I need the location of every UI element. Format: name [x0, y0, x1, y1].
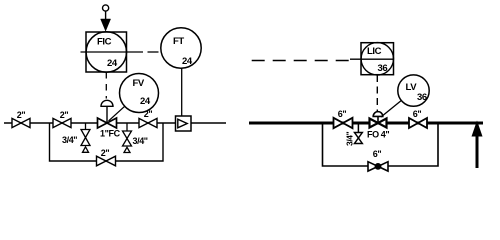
- wire: LV actuator stem: [377, 116, 379, 123]
- valve 2in V3: [139, 118, 157, 127]
- wire: actuator stem: [106, 106, 108, 123]
- valve 2in V2: [53, 118, 71, 127]
- svg-text:2": 2": [101, 148, 110, 158]
- wire: FIC mid line: [81, 51, 144, 53]
- wire: right main pipe (bold): [249, 122, 483, 125]
- valve 6in V1r: [334, 118, 353, 128]
- svg-text:LIC: LIC: [367, 46, 382, 57]
- svg-text:3/4": 3/4": [133, 136, 148, 146]
- drain valve D2 3/4in: [123, 123, 132, 153]
- svg-text:FO 4": FO 4": [367, 130, 389, 140]
- wire: LV circle to valve diagonal: [381, 101, 401, 118]
- valve 2in V1: [12, 118, 30, 127]
- wire: FT to FE vertical: [181, 68, 183, 116]
- svg-text:2": 2": [17, 110, 26, 120]
- instrument FIC-24 square: [86, 32, 127, 72]
- actuator diaphragm of LV: [373, 112, 383, 117]
- wire: dashed signal line to LIC: [252, 60, 349, 62]
- svg-text:FV: FV: [133, 78, 145, 89]
- svg-text:36: 36: [378, 63, 388, 74]
- ball valve 6in on bypass: [368, 162, 388, 171]
- control valve LV body (bold): [370, 119, 387, 128]
- control valve FV body 1inFC: [98, 118, 117, 128]
- arrow: flow continuation up (bold): [476, 134, 479, 168]
- valve 2in bypass: [97, 156, 116, 166]
- svg-text:FIC: FIC: [97, 37, 112, 48]
- arrow into FIC (filled): [101, 19, 111, 31]
- svg-text:3/4": 3/4": [62, 135, 77, 145]
- svg-text:24: 24: [182, 56, 193, 67]
- wire: dashed signal FIC to FV actuator: [105, 72, 107, 99]
- instrument LIC-36 square: [361, 43, 394, 75]
- drain valve Dr 3/4in: [355, 125, 363, 144]
- svg-text:1"FC: 1"FC: [100, 129, 121, 139]
- svg-text:6": 6": [338, 109, 347, 119]
- instrument FIC-24 circle: [86, 32, 126, 72]
- wire: left main pipe: [4, 122, 226, 124]
- svg-text:LV: LV: [406, 82, 418, 93]
- instrument FV-24 circle: [120, 74, 159, 113]
- actuator diaphragm of FV: [101, 100, 113, 106]
- svg-text:2": 2": [60, 110, 69, 120]
- wire: dash FIC to FT: [148, 51, 159, 53]
- instrument LIC-36 circle: [361, 43, 393, 75]
- drain valve D1 3/4in: [81, 123, 90, 152]
- svg-text:36: 36: [417, 92, 427, 103]
- node: small circle above FIC: [103, 5, 109, 11]
- svg-text:6": 6": [413, 109, 422, 119]
- instrument FT-24 circle: [161, 28, 201, 68]
- wire: stem below small circle: [105, 11, 107, 20]
- instrument LV-36 circle: [398, 75, 429, 106]
- svg-text:6": 6": [373, 149, 382, 159]
- svg-text:FT: FT: [173, 36, 184, 47]
- wire: dashed signal LIC to LV actuator: [376, 75, 378, 112]
- wire: LIC mid line: [350, 58, 394, 60]
- wire: right bypass U: [323, 123, 439, 166]
- flow element FE box with triangle: [176, 116, 192, 131]
- svg-text:24: 24: [107, 58, 118, 69]
- wire: FV circle to valve diagonal: [109, 106, 125, 121]
- valve 6in V2r: [409, 118, 427, 128]
- svg-text:24: 24: [140, 96, 151, 107]
- svg-text:3/4": 3/4": [344, 131, 354, 146]
- wire: left bypass U (down, across, up): [50, 123, 164, 161]
